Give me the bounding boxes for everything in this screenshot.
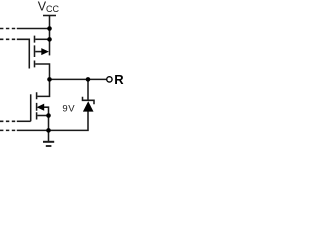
svg-text:V: V (68, 104, 75, 115)
svg-text:9: 9 (62, 104, 67, 115)
svg-text:CC: CC (46, 4, 59, 14)
svg-text:R: R (114, 72, 124, 87)
